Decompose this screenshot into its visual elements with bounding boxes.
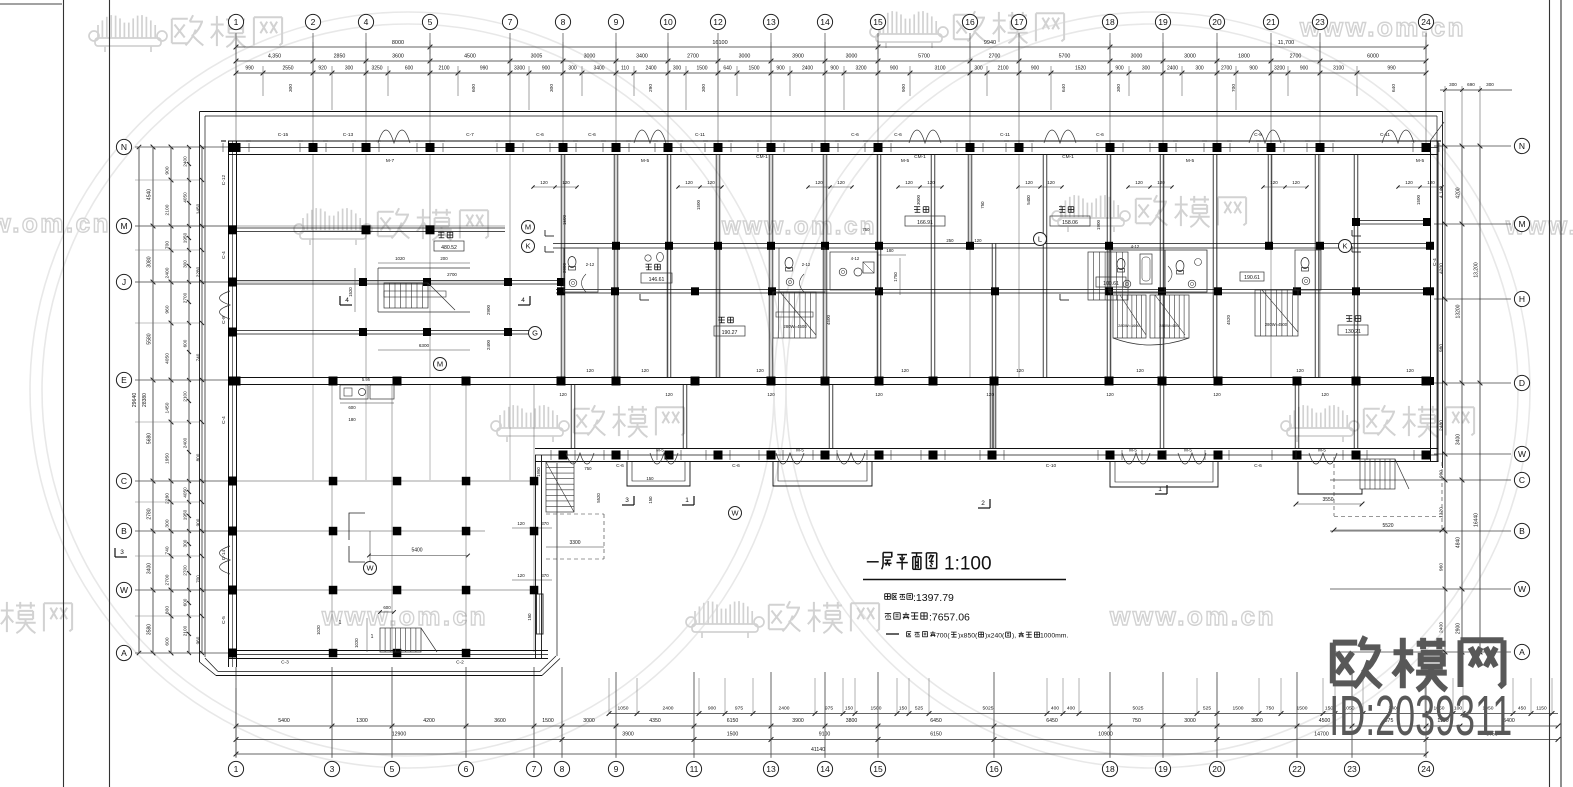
- interior grid bubble K right: [1339, 240, 1352, 253]
- svg-text:120: 120: [905, 180, 913, 185]
- svg-text:1450: 1450: [165, 402, 171, 413]
- svg-text:280W=4500: 280W=4500: [783, 324, 807, 329]
- svg-text:120: 120: [665, 392, 673, 397]
- svg-text:2: 2: [981, 500, 985, 507]
- left dimension column outer: [132, 145, 148, 655]
- svg-text:J: J: [122, 277, 126, 287]
- svg-text:E: E: [121, 375, 127, 385]
- svg-text:120: 120: [559, 392, 567, 397]
- bottom grid bubbles: [228, 761, 1433, 776]
- right dimension top extension: [1440, 82, 1512, 146]
- svg-text:16100: 16100: [712, 40, 727, 46]
- staircase mid unit: [773, 292, 816, 338]
- svg-text:16: 16: [989, 764, 999, 774]
- svg-text:2-12: 2-12: [802, 262, 811, 267]
- svg-text:2700: 2700: [1221, 66, 1232, 72]
- svg-text:D: D: [1519, 378, 1525, 388]
- svg-text:146.61: 146.61: [649, 277, 665, 283]
- interior small dims near row E: [559, 368, 1414, 397]
- wing interior row lines C B W: [236, 481, 535, 590]
- svg-text:G: G: [532, 329, 538, 338]
- svg-text:150: 150: [527, 613, 532, 621]
- watermark sofa+text mid-left: [491, 405, 684, 442]
- window labels west wall rotated: [221, 174, 227, 623]
- svg-text:3400: 3400: [147, 563, 153, 574]
- svg-text:4500: 4500: [826, 314, 831, 325]
- svg-text:750: 750: [584, 466, 592, 471]
- window swing arcs south wall: [566, 453, 1337, 464]
- svg-text:120: 120: [1047, 180, 1055, 185]
- interior small dims near north wall: [531, 180, 1443, 189]
- bathroom unit 4 fixtures: [1109, 244, 1207, 292]
- svg-text:600: 600: [165, 637, 171, 645]
- svg-text:1500: 1500: [1233, 706, 1244, 712]
- svg-text:190.61: 190.61: [1244, 275, 1260, 281]
- west exterior wall with window band: [229, 141, 237, 667]
- svg-text:250: 250: [946, 238, 954, 243]
- svg-text:600: 600: [471, 84, 477, 92]
- svg-text:2400: 2400: [779, 706, 790, 712]
- svg-text:2280: 2280: [165, 493, 171, 504]
- area text line 2: [885, 612, 970, 624]
- svg-text::1397.79: :1397.79: [913, 592, 954, 604]
- svg-text:900: 900: [901, 84, 907, 92]
- svg-text:CM-1: CM-1: [914, 154, 926, 160]
- svg-text:1520: 1520: [348, 287, 353, 297]
- svg-text:C-11: C-11: [1000, 132, 1010, 138]
- svg-text:4200: 4200: [1456, 187, 1462, 198]
- window jamb marks south walls: [551, 450, 1438, 460]
- svg-text:C-2: C-2: [456, 660, 464, 666]
- svg-text:4840: 4840: [1456, 537, 1462, 548]
- left dimension column mid: [147, 145, 156, 656]
- svg-text:180: 180: [886, 248, 894, 253]
- svg-text:C-4: C-4: [221, 251, 227, 259]
- svg-text:6000: 6000: [1367, 54, 1379, 60]
- svg-text:120: 120: [815, 180, 823, 185]
- svg-text:158.06: 158.06: [1062, 220, 1078, 226]
- svg-text:120: 120: [540, 180, 548, 185]
- bathroom unit 1 fixtures: [564, 248, 598, 292]
- interior grid bubble L: [1034, 233, 1047, 246]
- svg-text:3100: 3100: [1333, 66, 1344, 72]
- svg-text:)x850(: )x850(: [958, 633, 978, 640]
- svg-text:300: 300: [568, 66, 577, 72]
- svg-text:750: 750: [1132, 718, 1141, 724]
- svg-text:900: 900: [708, 706, 716, 712]
- watermark sofa+text mid-right: [1281, 405, 1474, 442]
- svg-text:525: 525: [915, 706, 923, 712]
- svg-text:3400: 3400: [636, 54, 648, 60]
- svg-text:1900: 1900: [1096, 219, 1101, 230]
- skirt bottom-left miter and bottom double line: [200, 656, 561, 676]
- entrance porch 1: [627, 462, 690, 487]
- svg-text:1050: 1050: [618, 706, 629, 712]
- svg-text:11: 11: [690, 764, 699, 774]
- svg-text:1020: 1020: [316, 625, 321, 635]
- large watermark text oumowang: [1333, 637, 1504, 690]
- svg-text:),: ),: [1012, 633, 1016, 640]
- svg-text:640: 640: [723, 66, 732, 72]
- svg-text:C: C: [1519, 475, 1525, 485]
- svg-text:1300: 1300: [356, 718, 368, 724]
- svg-text:120: 120: [1292, 180, 1300, 185]
- svg-text:M: M: [437, 360, 443, 369]
- svg-text:3000: 3000: [1184, 718, 1196, 724]
- columns south wall row: [559, 451, 1431, 460]
- vertical grid lines from top bubbles: [236, 33, 1426, 148]
- staircase right unit A double flight: [1113, 295, 1189, 345]
- small fixtures unit 2 top: [645, 252, 664, 261]
- columns row E: [232, 377, 1431, 386]
- svg-text:16440: 16440: [1474, 513, 1480, 527]
- svg-text:1950: 1950: [183, 232, 188, 243]
- svg-text:8: 8: [560, 764, 565, 774]
- svg-text:150: 150: [646, 476, 654, 481]
- svg-text:M-5: M-5: [901, 158, 910, 164]
- svg-text:2900: 2900: [486, 304, 491, 315]
- svg-text:17: 17: [1014, 17, 1024, 27]
- columns east wall: [1426, 242, 1434, 385]
- svg-text:3005: 3005: [531, 54, 543, 60]
- svg-text:1520: 1520: [1075, 66, 1086, 72]
- top dimension row 1 overall: [234, 40, 1429, 54]
- columns row H: [557, 287, 1431, 295]
- section marker 2 center: [978, 499, 990, 508]
- left grid bubbles: [116, 139, 131, 660]
- watermark text lower left-edge: [0, 601, 72, 633]
- svg-text:2100: 2100: [438, 66, 449, 72]
- svg-text:900: 900: [1300, 66, 1309, 72]
- svg-text:M: M: [1518, 219, 1525, 229]
- svg-text:C-5: C-5: [221, 616, 227, 624]
- bathroom unit 5 fixtures: [1295, 250, 1321, 290]
- svg-text:5.9h: 5.9h: [362, 377, 371, 382]
- svg-text:12: 12: [713, 17, 723, 27]
- svg-text:6: 6: [464, 764, 469, 774]
- svg-text:300: 300: [1142, 66, 1151, 72]
- svg-text:41140: 41140: [811, 747, 825, 753]
- svg-text:4,350: 4,350: [268, 54, 281, 60]
- south band partition walls: [571, 385, 1358, 449]
- large watermark id number: [1329, 685, 1512, 748]
- svg-text:1: 1: [685, 497, 689, 504]
- svg-text:280W=1600: 280W=1600: [1118, 323, 1140, 328]
- svg-text:3000: 3000: [583, 718, 595, 724]
- svg-text:120: 120: [586, 368, 594, 373]
- svg-text:6450: 6450: [1046, 718, 1058, 724]
- svg-text:19: 19: [1158, 764, 1168, 774]
- staircase below left-center: [546, 462, 574, 512]
- svg-text:2700: 2700: [165, 574, 171, 585]
- svg-text:600: 600: [405, 66, 414, 72]
- svg-text:960: 960: [1439, 563, 1445, 571]
- left dimension column finest: [183, 145, 192, 655]
- dashed property lines bottom right: [1334, 457, 1442, 530]
- svg-text:14: 14: [820, 17, 830, 27]
- svg-text:4200: 4200: [1439, 263, 1445, 274]
- wing tiny dims right side: [512, 521, 552, 621]
- columns row K: [612, 242, 1324, 250]
- svg-text:13200: 13200: [1456, 304, 1462, 318]
- svg-text:150: 150: [845, 706, 853, 712]
- svg-text:23: 23: [1315, 17, 1325, 27]
- staircase right unit B: [1255, 290, 1298, 336]
- svg-text:1:100: 1:100: [944, 554, 992, 575]
- svg-text:120: 120: [1406, 368, 1414, 373]
- svg-text:120: 120: [986, 392, 994, 397]
- svg-text:6150: 6150: [930, 732, 942, 738]
- svg-text:5400: 5400: [1026, 195, 1031, 205]
- svg-text:C-10: C-10: [1046, 463, 1057, 469]
- svg-text:4: 4: [364, 17, 369, 27]
- drawing frame left border lines: [64, 0, 110, 787]
- staircase right bathroom block: [1088, 252, 1128, 300]
- svg-text:23: 23: [1347, 764, 1357, 774]
- interior wall row M right part: [1354, 221, 1430, 225]
- svg-text:600: 600: [183, 598, 188, 606]
- svg-text:www.om.cn: www.om.cn: [721, 213, 877, 240]
- svg-text:120: 120: [1136, 368, 1144, 373]
- svg-text:8000: 8000: [392, 40, 404, 46]
- svg-text:A: A: [1519, 647, 1525, 657]
- interior wall row G left part: [236, 331, 535, 335]
- svg-text:C-6: C-6: [588, 132, 596, 138]
- svg-text:24: 24: [1421, 17, 1431, 27]
- svg-text:K: K: [525, 242, 530, 251]
- svg-text:300: 300: [183, 260, 188, 268]
- svg-text:1950: 1950: [183, 509, 188, 520]
- svg-text:C-13: C-13: [343, 132, 354, 138]
- svg-text:120: 120: [1016, 368, 1024, 373]
- svg-text:7: 7: [508, 17, 513, 27]
- door labels below north wall: [386, 154, 1425, 164]
- svg-text:C-7: C-7: [466, 132, 474, 138]
- svg-text:1: 1: [371, 634, 374, 640]
- columns row M right: [1352, 218, 1431, 226]
- top dimension row 2 grid segments: [234, 54, 1429, 64]
- watermark www.om.cn row2 right-edge: [1505, 213, 1573, 240]
- svg-text:W: W: [1518, 449, 1526, 459]
- drawing frame right border lines: [1550, 0, 1562, 787]
- small dims bottom wing: [316, 476, 654, 635]
- svg-text:C-8: C-8: [221, 316, 227, 324]
- svg-text:C-11: C-11: [695, 132, 705, 138]
- svg-text:1500: 1500: [1416, 194, 1421, 205]
- svg-text:2700: 2700: [183, 565, 188, 576]
- left dimension column extra: [196, 145, 205, 655]
- svg-text:3580: 3580: [147, 624, 153, 635]
- svg-text:2480: 2480: [1439, 420, 1445, 431]
- svg-text:11,700: 11,700: [1278, 40, 1294, 46]
- svg-text:5400: 5400: [411, 548, 422, 554]
- watermark www.om.cn lower-right: [1109, 601, 1276, 631]
- svg-text:1800: 1800: [1238, 54, 1250, 60]
- title underline: [863, 579, 1066, 581]
- interior wall row H: [556, 290, 1430, 294]
- svg-text:190.27: 190.27: [722, 330, 738, 336]
- svg-text:21: 21: [1266, 17, 1276, 27]
- svg-text:3300: 3300: [569, 540, 580, 546]
- svg-text:18: 18: [1105, 17, 1115, 27]
- svg-text::7657.06: :7657.06: [929, 612, 970, 624]
- note line with dash: [886, 631, 1068, 639]
- svg-text:980: 980: [1439, 344, 1445, 352]
- svg-text:1950: 1950: [536, 467, 541, 477]
- section marker 1 right porch: [1155, 485, 1167, 494]
- kitchen cluster left wing: [340, 377, 394, 422]
- svg-text:900: 900: [165, 166, 171, 174]
- watermark sofa+text row2-right: [1052, 195, 1246, 232]
- svg-text:H: H: [1519, 294, 1525, 304]
- right dimension column outer: [1474, 144, 1483, 655]
- svg-text:166.91: 166.91: [917, 220, 933, 226]
- svg-text:2400: 2400: [183, 156, 188, 167]
- svg-text:900: 900: [830, 66, 839, 72]
- section marker 3 porch: [622, 496, 634, 505]
- svg-text:M-7: M-7: [386, 158, 395, 164]
- svg-text:300: 300: [1116, 84, 1122, 92]
- svg-text:900: 900: [776, 66, 785, 72]
- svg-text:2400: 2400: [663, 706, 674, 712]
- svg-text:900: 900: [542, 66, 551, 72]
- svg-text:B: B: [1519, 526, 1525, 536]
- svg-text:19: 19: [1158, 17, 1168, 27]
- svg-text:2700: 2700: [183, 292, 188, 303]
- dimension 5520 bottom right porch: [1332, 523, 1445, 532]
- svg-text:300: 300: [165, 519, 171, 527]
- svg-text:14: 14: [820, 764, 830, 774]
- interior grid bubble K: [522, 240, 535, 253]
- svg-text:3: 3: [120, 549, 124, 556]
- svg-text:4350: 4350: [649, 718, 661, 724]
- svg-text:120: 120: [837, 180, 845, 185]
- svg-text:2400: 2400: [183, 437, 188, 448]
- svg-text:1: 1: [234, 764, 239, 774]
- svg-text:4520: 4520: [1226, 314, 1231, 325]
- svg-text:6300: 6300: [419, 343, 430, 348]
- interior grid bubble M2: [434, 358, 447, 371]
- room label 100.61: [1096, 277, 1126, 287]
- svg-text:A: A: [121, 648, 127, 658]
- svg-text:28380: 28380: [142, 393, 148, 407]
- skirt right side of building: [1437, 112, 1443, 469]
- svg-text:N: N: [121, 142, 127, 152]
- big watermark circle right: [774, 12, 1530, 768]
- svg-text:3550: 3550: [1322, 497, 1333, 503]
- svg-text:990: 990: [480, 66, 489, 72]
- svg-text:1750: 1750: [893, 272, 898, 282]
- section marker 4 left b: [518, 296, 530, 305]
- svg-text:280W=450: 280W=450: [1159, 323, 1179, 328]
- svg-text:N: N: [1519, 141, 1525, 151]
- svg-text:740: 740: [165, 546, 171, 554]
- section marker 1 porch: [682, 496, 694, 505]
- watermark www.om.cn top-right: [1299, 12, 1466, 42]
- svg-text:120: 120: [1321, 392, 1329, 397]
- svg-text:1950: 1950: [165, 453, 171, 464]
- svg-text:20: 20: [1212, 764, 1222, 774]
- svg-text:2400: 2400: [1439, 622, 1445, 633]
- svg-text:3400: 3400: [593, 66, 604, 72]
- bottom dimension extension verticals: [236, 667, 1426, 757]
- svg-text:4050: 4050: [183, 487, 188, 498]
- svg-text:990: 990: [1439, 470, 1445, 478]
- svg-text:3000: 3000: [584, 54, 596, 60]
- svg-text:C-11: C-11: [1380, 132, 1390, 138]
- svg-text:14700: 14700: [1314, 732, 1329, 738]
- svg-text:300: 300: [673, 66, 682, 72]
- bathroom unit 2 fixtures: [779, 248, 825, 292]
- svg-text:C-6: C-6: [1096, 132, 1104, 138]
- svg-text:)x240(: )x240(: [985, 633, 1005, 640]
- svg-text:3000: 3000: [916, 194, 921, 205]
- svg-text:120: 120: [641, 368, 649, 373]
- svg-text:4500: 4500: [464, 54, 476, 60]
- interior long wall row E: [232, 378, 1434, 385]
- wing right wall window rect: [537, 594, 544, 634]
- big watermark circle left: [30, 12, 786, 768]
- top extra small dim labels: [288, 84, 1397, 92]
- svg-text:4050: 4050: [165, 353, 171, 364]
- right grid bubbles: [1514, 138, 1529, 659]
- svg-text:290: 290: [648, 84, 654, 92]
- svg-text:120: 120: [1405, 180, 1413, 185]
- interior thin grid verticals top band: [313, 154, 1320, 378]
- svg-text:1500: 1500: [748, 66, 759, 72]
- svg-text:2900: 2900: [1456, 623, 1462, 634]
- svg-text:10: 10: [663, 17, 673, 27]
- svg-text:600: 600: [348, 405, 356, 410]
- svg-text:5025: 5025: [983, 706, 994, 712]
- svg-text:C-3: C-3: [281, 660, 289, 666]
- svg-text:300: 300: [288, 84, 294, 92]
- interior grid bubble G: [529, 327, 542, 340]
- svg-text:15: 15: [873, 17, 883, 27]
- svg-text:975: 975: [825, 706, 833, 712]
- svg-text:300: 300: [1486, 82, 1494, 87]
- window jamb marks north wall: [221, 141, 1441, 152]
- svg-text:16: 16: [965, 17, 975, 27]
- window swing arcs north wall: [378, 130, 1414, 143]
- wing W bubble and dim 5400: [349, 513, 470, 575]
- svg-text:120: 120: [767, 392, 775, 397]
- svg-text:120: 120: [1270, 180, 1278, 185]
- svg-text:1500: 1500: [562, 214, 567, 225]
- svg-text:5025: 5025: [1133, 706, 1144, 712]
- watermark www.om.cn lower-left: [321, 601, 488, 631]
- svg-text:300: 300: [345, 66, 354, 72]
- svg-text:300: 300: [183, 539, 188, 547]
- svg-text:24: 24: [1421, 764, 1431, 774]
- right dimension column mid: [1456, 144, 1465, 655]
- skirt wing right double vertical: [536, 455, 558, 658]
- dimension 3550 bottom right porch: [1294, 497, 1365, 506]
- interior grid bubble M: [522, 221, 535, 234]
- svg-text:C-6: C-6: [732, 463, 740, 469]
- svg-text:920: 920: [318, 66, 327, 72]
- vertical grid lines to bottom bubbles: [236, 667, 1426, 758]
- svg-text:120: 120: [974, 238, 982, 243]
- svg-text:3100: 3100: [934, 66, 945, 72]
- svg-text:2400: 2400: [645, 66, 656, 72]
- svg-text:150: 150: [648, 496, 653, 504]
- svg-text:2700: 2700: [447, 272, 457, 277]
- svg-text:3000: 3000: [1184, 54, 1196, 60]
- window labels south wall: [616, 448, 1326, 470]
- dashed mezzanine outline left-center: [546, 514, 604, 559]
- svg-text:120: 120: [875, 392, 883, 397]
